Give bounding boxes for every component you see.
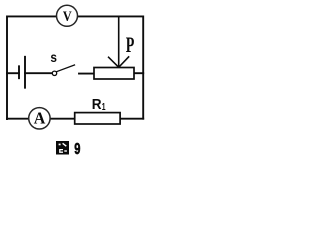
wire switch to potentiometer P [79,73,94,75]
resistor R1 body box [75,113,120,124]
switch contact circle [52,71,56,75]
ammeter U-A circle [29,108,50,129]
P arrowhead left stroke [109,57,119,67]
switch blade [57,65,75,72]
voltmeter U-V circle [57,5,78,26]
wire R1 to bottom-right corner [120,118,143,120]
wire battery to switch [25,72,52,74]
wire ammeter to R1 [50,118,74,120]
potentiometer P body box [94,68,134,80]
svg-text:1: 1 [102,101,106,113]
svg-text:A: A [34,108,46,127]
wire P right terminal [134,72,143,74]
battery plate long (positive) [24,57,26,88]
P arrowhead right stroke [119,57,129,67]
svg-text:P: P [126,33,135,57]
svg-text:R: R [92,96,102,113]
wire top-left: from left vertical to voltmeter [7,16,57,119]
wire P wiper vertical [118,16,120,66]
battery plate short (negative) [18,66,20,78]
svg-text:V: V [63,9,72,25]
wire bottom-left: bottom-left corner to ammeter [7,118,29,120]
caption glyph 图 (drawn, CJK font unavailable) [56,141,69,155]
wire battery left [7,72,19,74]
svg-text:s: s [50,49,57,65]
svg-text:9: 9 [74,141,80,158]
wire top-right: voltmeter to top-right corner and down right side [78,16,144,118]
